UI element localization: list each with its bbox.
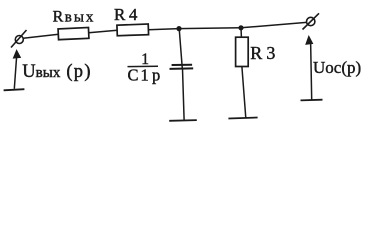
svg-text:C1p: C1p xyxy=(128,66,161,85)
svg-text:R4: R4 xyxy=(114,5,138,24)
svg-text:Rвых: Rвых xyxy=(53,8,96,25)
svg-text:R3: R3 xyxy=(250,43,275,63)
svg-text:Uвых(p): Uвых(p) xyxy=(22,62,92,82)
svg-text:Uoc(p): Uoc(p) xyxy=(313,58,361,77)
